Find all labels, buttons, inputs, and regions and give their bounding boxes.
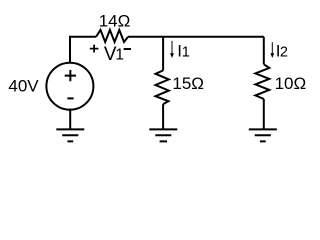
wire: R3 bottom to ground	[263, 99, 265, 129]
svg-text:1: 1	[115, 47, 124, 64]
resistor R2 15Ω	[156, 70, 169, 104]
current arrow I2	[270, 42, 274, 58]
label 14Ω	[99, 12, 131, 31]
label 40V	[8, 76, 39, 95]
ground (under R2)	[149, 129, 177, 141]
label V1	[104, 44, 124, 65]
label + of V1	[90, 45, 99, 53]
label 15Ω	[172, 74, 204, 93]
current arrow I1	[170, 41, 174, 58]
wire: right corner down to R3	[263, 37, 265, 65]
resistor R3 10Ω	[255, 64, 269, 99]
svg-text:2: 2	[280, 45, 288, 61]
label 10Ω	[275, 74, 307, 93]
ground (under source)	[56, 129, 84, 141]
label - of V1	[124, 48, 131, 50]
resistor R1 14Ω (top)	[96, 30, 128, 42]
svg-text:15Ω: 15Ω	[172, 74, 204, 93]
label I1	[177, 42, 189, 61]
wire: R2 bottom to ground	[162, 104, 164, 129]
voltage source V 40V	[46, 63, 93, 110]
ground (under R3)	[249, 129, 277, 141]
wire: node A junction down to R2	[162, 37, 164, 71]
wire: source top to node A	[70, 37, 96, 63]
svg-text:1: 1	[182, 45, 190, 61]
minus terminal of source	[67, 97, 73, 99]
svg-text:40V: 40V	[8, 76, 39, 95]
label I2	[276, 42, 288, 61]
plus terminal of source	[65, 70, 76, 81]
svg-text:10Ω: 10Ω	[275, 74, 307, 93]
svg-text:14Ω: 14Ω	[99, 12, 131, 31]
wire: source bottom to ground	[69, 109, 71, 130]
wire: top horizontal from R1 to right corner	[128, 36, 264, 38]
